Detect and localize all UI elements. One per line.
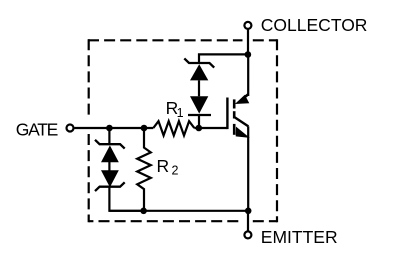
dashed outline left side upper <box>88 39 90 114</box>
channel bar bottom segment <box>233 124 236 135</box>
collector terminal wire <box>247 30 249 55</box>
gate bar <box>226 98 228 130</box>
wire between clamp diodes <box>198 80 200 96</box>
node: gate / protection zeners junction <box>106 125 113 132</box>
node: emitter rail junction <box>245 208 252 215</box>
resistor R2 <box>137 128 151 211</box>
diode D4 (clamp blocking diode, cathode down) <box>188 96 211 115</box>
wire between zeners <box>108 162 110 171</box>
COLLECTOR terminal <box>244 22 251 29</box>
dashed outline bottom-left segment <box>89 220 243 222</box>
dashed outline right side <box>276 39 278 222</box>
zener D2 (gate-emitter, cathode down) <box>95 170 125 191</box>
channel bar middle segment <box>233 111 236 118</box>
emitter terminal wire <box>247 211 249 231</box>
svg-text:COLLECTOR: COLLECTOR <box>261 15 368 35</box>
node: gate / R2 junction <box>141 125 148 132</box>
emitter rail wire <box>109 210 248 212</box>
body tie diagonal <box>235 117 249 126</box>
resistor R1 <box>153 121 194 135</box>
svg-text:GATE: GATE <box>16 120 59 140</box>
zener D3 (collector-gate clamp, cathode up) <box>184 58 214 80</box>
wire zener D2 to emitter rail <box>109 187 143 211</box>
IGBT Q1 <box>227 55 249 211</box>
svg-text:R: R <box>157 156 170 176</box>
channel bar top segment <box>233 99 236 108</box>
zener D1 (gate-emitter, cathode up) <box>95 140 125 163</box>
dashed outline left side lower <box>88 134 90 222</box>
dashed outline bottom-right segment <box>253 220 277 222</box>
node: R1 / clamp diodes / IGBT gate junction <box>196 125 203 132</box>
svg-text:1: 1 <box>177 106 184 120</box>
GATE terminal <box>67 125 74 132</box>
wire zener D3 top lead and across to collector node <box>199 54 248 63</box>
collector vertical wire into IGBT <box>247 55 249 97</box>
wire R1 node to IGBT gate <box>194 127 227 129</box>
gate wire <box>75 127 154 129</box>
svg-text:EMITTER: EMITTER <box>261 227 338 247</box>
dashed outline top-right segment <box>253 39 277 41</box>
node: collector junction <box>245 51 252 58</box>
dashed outline top-left segment <box>88 39 243 41</box>
collector diagonal with arrow into channel <box>244 94 249 98</box>
emitter vertical wire <box>247 126 249 210</box>
wire gate node to zener D1 <box>108 128 110 144</box>
node: R2 / emitter rail junction <box>140 208 147 215</box>
svg-text:2: 2 <box>172 164 179 178</box>
wire clamp stack bottom lead <box>198 115 200 128</box>
emitter diagonal with arrow <box>236 127 250 138</box>
EMITTER terminal <box>244 231 251 238</box>
